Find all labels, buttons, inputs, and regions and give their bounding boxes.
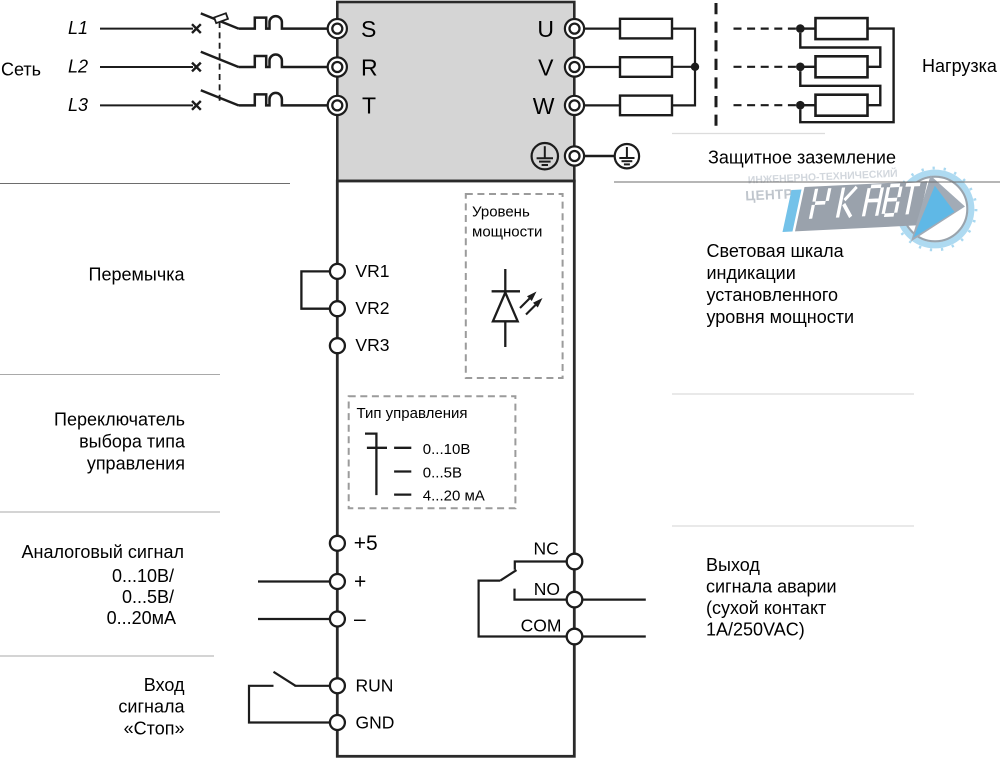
power level dashed box [466, 194, 563, 378]
svg-text:сигнала: сигнала [118, 697, 185, 717]
run switch wire to RUN [295, 685, 330, 687]
svg-text:+: + [354, 571, 366, 594]
svg-text:индикации: индикации [707, 263, 796, 283]
breaker blade L3 [201, 90, 239, 105]
breaker release box [214, 13, 228, 23]
svg-text:Тип управления: Тип управления [357, 405, 468, 422]
breaker blade L2 [201, 52, 239, 67]
ground symbol inside unit [532, 143, 558, 169]
terminal plus [330, 574, 345, 589]
selector switch common [365, 434, 376, 496]
svg-text:V: V [538, 55, 554, 81]
dashed wire to load V [734, 66, 798, 68]
letter Т [900, 184, 920, 214]
letter А [863, 186, 882, 216]
jumper bracket VR1-VR2 [301, 271, 330, 308]
svg-text:T: T [362, 93, 376, 119]
brake resistor W [620, 96, 672, 116]
logo gear ring outer teeth [894, 168, 976, 250]
delta link W to U element outer loop [800, 29, 893, 123]
letter В [883, 185, 901, 215]
svg-text:мощности: мощности [472, 224, 542, 241]
drive unit power section box (gray) [337, 2, 574, 181]
svg-text:1А/250VAC): 1А/250VAC) [706, 619, 805, 639]
node load U [796, 24, 805, 33]
contact cross L2 [192, 63, 201, 72]
wire NC with hook [515, 562, 567, 570]
breaker thermal+magnetic element L2 [239, 55, 328, 67]
logo gear ring blue band [899, 173, 972, 246]
wire U resistor to bus [672, 29, 695, 67]
breaker blade L1 [201, 13, 239, 28]
svg-text:S: S [361, 16, 376, 42]
svg-text:Аналоговый сигнал: Аналоговый сигнал [22, 542, 184, 562]
delta link U to V element [800, 33, 880, 67]
separator line left 4 [0, 655, 214, 657]
separator line right 2 [672, 393, 914, 395]
drive unit control section box (white) [337, 181, 574, 756]
terminal U [565, 19, 584, 38]
cable break dashed separator [715, 3, 718, 126]
svg-text:Выход: Выход [706, 555, 760, 575]
terminal GND [330, 715, 345, 730]
logo text band blue accent [783, 190, 802, 233]
terminal R [328, 57, 347, 76]
LED indicator [492, 269, 520, 347]
wire V resistor to bus [672, 66, 695, 68]
separator line left top [0, 183, 290, 185]
svg-text:W: W [533, 93, 555, 119]
delta link V to W element [800, 71, 880, 105]
svg-text:VR3: VR3 [355, 335, 389, 355]
separator line right top [614, 181, 1000, 183]
logo triangle gray shadow [911, 176, 965, 242]
wire W resistor to bus [672, 67, 695, 106]
svg-text:0...5В/: 0...5В/ [122, 587, 174, 607]
svg-text:GND: GND [356, 712, 395, 732]
svg-text:установленного: установленного [707, 285, 839, 305]
brake resistor U [620, 19, 672, 39]
svg-text:«Стоп»: «Стоп» [124, 718, 185, 738]
letter К [838, 187, 857, 218]
terminal minus [330, 612, 345, 627]
svg-text:VR1: VR1 [355, 261, 389, 281]
svg-text:Переключатель: Переключатель [54, 410, 185, 430]
svg-text:0...20мА: 0...20мА [107, 608, 176, 628]
logo wordmark УКАВТ seven-segment [811, 184, 921, 219]
node load W [796, 101, 805, 110]
contact cross L1 [192, 24, 201, 33]
terminal COM [567, 629, 583, 645]
wire L1 [100, 28, 193, 30]
terminal S [328, 19, 347, 38]
svg-text:RUN: RUN [356, 676, 394, 696]
ground terminal [565, 146, 584, 165]
wire U to brake resistor [584, 28, 620, 30]
svg-text:U: U [537, 16, 554, 42]
svg-text:0...10В/: 0...10В/ [112, 566, 174, 586]
contact cross L3 [192, 101, 201, 110]
letter У [811, 188, 830, 219]
svg-text:Защитное заземление: Защитное заземление [708, 148, 896, 168]
logo text band parallelogram [795, 181, 928, 231]
brake resistor V [620, 57, 672, 77]
wire analog plus [258, 580, 330, 582]
svg-text:сигнала аварии: сигнала аварии [706, 576, 837, 596]
logo inner thin ring [903, 177, 968, 242]
svg-text:Уровень: Уровень [472, 204, 530, 221]
wire NO out [582, 598, 646, 600]
protective earth symbol [615, 144, 639, 168]
svg-text:Вход: Вход [144, 675, 185, 695]
terminal +5 [330, 536, 345, 551]
terminal VR1 [330, 264, 345, 279]
svg-text:COM: COM [521, 615, 562, 635]
terminal V [565, 57, 584, 76]
relay blade [500, 570, 516, 581]
terminal VR2 [330, 301, 345, 316]
svg-text:–: – [354, 608, 366, 631]
breaker thermal+magnetic element L1 [239, 16, 328, 29]
control type dashed box [349, 396, 516, 508]
dashed wire to load W [734, 104, 798, 106]
LED emission arrows [520, 292, 543, 315]
selector switch wiper bar [367, 447, 387, 449]
terminal NO [567, 592, 583, 608]
svg-text:0...10В: 0...10В [423, 441, 471, 458]
svg-text:выбора типа: выбора типа [79, 432, 186, 452]
svg-text:Световая шкала: Световая шкала [707, 241, 845, 261]
wire L2 [100, 66, 193, 68]
svg-text:L3: L3 [68, 95, 88, 115]
svg-text:NC: NC [534, 539, 559, 559]
svg-text:Перемычка: Перемычка [89, 264, 186, 284]
terminal W [565, 96, 584, 115]
load element V [800, 56, 867, 77]
run switch bracket to GND [249, 686, 330, 723]
terminal NC [567, 554, 583, 570]
svg-text:+5: +5 [354, 532, 378, 555]
terminal VR3 [330, 338, 345, 353]
terminal T [328, 96, 347, 115]
load element W [800, 95, 867, 116]
svg-text:NO: NO [534, 579, 560, 599]
run switch blade [274, 672, 296, 686]
svg-text:уровня мощности: уровня мощности [707, 307, 855, 327]
dashed wire to load U [734, 28, 798, 30]
wire V to brake resistor [584, 66, 620, 68]
junction bus node [691, 63, 699, 71]
svg-text:0...5В: 0...5В [423, 465, 462, 482]
selector position 3 [394, 493, 411, 495]
svg-text:L1: L1 [68, 18, 88, 38]
load element U [800, 18, 867, 39]
wire L3 [100, 104, 193, 106]
svg-text:(сухой контакт: (сухой контакт [706, 598, 826, 618]
svg-text:4...20 мА: 4...20 мА [423, 488, 485, 505]
wire NO with hook [515, 589, 567, 600]
separator line right 3 [672, 525, 914, 527]
selector position 1 [394, 447, 411, 449]
wire analog minus [258, 618, 330, 620]
separator line above ground label [672, 133, 825, 135]
selector position 2 [394, 470, 411, 472]
breaker linkage dashed [219, 22, 221, 105]
svg-text:L2: L2 [68, 57, 88, 77]
wire ground terminal to earth [584, 155, 615, 157]
relay common bracket to COM [479, 581, 567, 637]
separator line left 3 [0, 511, 220, 513]
wire COM out [582, 635, 646, 637]
node load V [796, 63, 805, 72]
terminal RUN [330, 678, 345, 693]
logo triangle blue [913, 186, 954, 238]
svg-text:управления: управления [87, 454, 185, 474]
svg-text:Нагрузка: Нагрузка [922, 56, 998, 76]
separator line left 2 [0, 374, 220, 376]
svg-text:R: R [361, 54, 378, 80]
wire W to brake resistor [584, 104, 620, 106]
svg-text:ИНЖЕНЕРНО-ТЕХНИЧЕСКИЙ: ИНЖЕНЕРНО-ТЕХНИЧЕСКИЙ [748, 167, 898, 187]
svg-text:Сеть: Сеть [1, 60, 41, 80]
svg-text:VR2: VR2 [355, 298, 389, 318]
logo УКАВТ watermark [745, 167, 976, 250]
svg-text:ЦЕНТР: ЦЕНТР [745, 186, 793, 203]
breaker thermal+magnetic element L3 [239, 93, 328, 106]
